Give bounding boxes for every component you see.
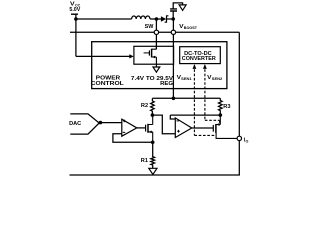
arrow symbol below regulator bbox=[153, 67, 160, 72]
svg-text:R2: R2 bbox=[141, 103, 148, 109]
label POWER CONTROL bbox=[91, 76, 125, 87]
wire feedback R3 node to op-amp U2 negative input bbox=[170, 115, 220, 119]
label VCC bbox=[70, 2, 80, 8]
arrowhead into regulator box bbox=[129, 54, 133, 58]
node junction dot VBOOST sense rail bbox=[172, 97, 176, 101]
op-amp U1 bbox=[122, 119, 137, 136]
wire pin rail horizontal bbox=[70, 31, 239, 33]
node junction dot DAC output bbox=[99, 121, 103, 125]
wire feedback Q1 source to op-amp U1 negative input bbox=[113, 134, 153, 143]
wire VCC vertical bbox=[75, 14, 77, 56]
op-amp U2 input polarity marks bbox=[177, 121, 180, 133]
ground symbol top bbox=[179, 5, 186, 10]
svg-text:DAC: DAC bbox=[69, 121, 81, 127]
svg-text:O: O bbox=[246, 139, 249, 143]
node junction dot SW top bbox=[155, 17, 159, 21]
transistor Q3 regulator pass MOSFET bbox=[144, 46, 157, 67]
wire VBOOST pin drop to sense rail bbox=[172, 19, 174, 98]
arrowhead VSEN1 into converter bbox=[193, 64, 197, 69]
diode D1 schottky bbox=[161, 15, 169, 22]
box regulator MOSFET bbox=[134, 46, 174, 64]
svg-text:SEN2: SEN2 bbox=[212, 77, 222, 81]
wire dashed VSEN2 sense bbox=[205, 69, 220, 124]
svg-text:R1: R1 bbox=[141, 158, 148, 164]
svg-text:R3: R3 bbox=[223, 104, 230, 110]
wire op-amp U1 output to Q1 gate bbox=[137, 127, 146, 129]
wire dashed VSEN1 sense bbox=[194, 69, 215, 135]
inductor L1 bbox=[132, 16, 150, 19]
arrowhead VSEN2 into converter bbox=[203, 64, 207, 69]
label DC-TO-DC CONVERTER bbox=[182, 51, 216, 62]
resistor R2 bbox=[151, 98, 155, 115]
op-amp U2 bbox=[175, 118, 192, 138]
wire capacitor to ground bbox=[173, 3, 182, 9]
wire DAC to op-amp U1 bbox=[100, 122, 121, 124]
svg-text:CONVERTER: CONVERTER bbox=[182, 56, 216, 62]
power rail bar VCC bbox=[71, 13, 78, 15]
wire inductor to SW node bbox=[150, 18, 161, 20]
op-amp U1 input polarity marks bbox=[123, 120, 126, 133]
box POWER CONTROL bbox=[92, 42, 227, 89]
DAC block bbox=[70, 114, 99, 134]
wire SW pin drop to MOSFET drain bbox=[155, 19, 157, 49]
transistor Q2 bbox=[213, 115, 236, 138]
pin circle IO output bbox=[237, 136, 241, 140]
node junction dot VBOOST top bbox=[171, 17, 175, 21]
label VSEN1 bbox=[177, 75, 192, 81]
arrow symbol below R1 bbox=[149, 168, 157, 174]
pin circle VBOOST bbox=[171, 30, 175, 34]
wire VCC to regulator with arrow bbox=[76, 55, 130, 57]
wire IO down and bottom return rail bbox=[70, 141, 240, 175]
capacitor C1 bbox=[170, 9, 177, 11]
svg-text:CONTROL: CONTROL bbox=[91, 81, 125, 87]
wire sense rail R2 to R3 bbox=[152, 97, 220, 99]
svg-text:BOOST: BOOST bbox=[184, 26, 198, 30]
label 7.4V TO 29.5V REG bbox=[131, 76, 174, 87]
wire top rail to inductor bbox=[76, 18, 132, 20]
wire VBOOST up to capacitor bbox=[172, 11, 174, 19]
svg-text:SEN1: SEN1 bbox=[181, 77, 191, 81]
node junction dot Q1 source R1 bbox=[151, 141, 155, 145]
node junction dot VCC/top-rail bbox=[74, 17, 78, 21]
wire op-amp U2 output to Q2 gate bbox=[192, 127, 214, 129]
label IO bbox=[244, 137, 249, 143]
label VBOOST bbox=[179, 24, 198, 30]
wire VBOOST right rail down to IO bbox=[238, 32, 240, 136]
svg-text:5.0V: 5.0V bbox=[69, 7, 80, 13]
svg-text:REG: REG bbox=[160, 81, 173, 87]
box DC-TO-DC CONVERTER bbox=[180, 47, 221, 64]
wire diode to VBOOST node bbox=[167, 18, 174, 20]
svg-text:SW: SW bbox=[145, 24, 154, 30]
wire R2 node to op-amp U2 positive input bbox=[152, 115, 175, 134]
resistor R1 bbox=[151, 142, 155, 168]
node junction dot R3 bottom bbox=[219, 113, 223, 117]
label VSEN2 bbox=[207, 75, 222, 81]
transistor Q1 bbox=[146, 115, 153, 142]
node junction dot R2 bottom bbox=[151, 113, 155, 117]
resistor R3 bbox=[219, 98, 223, 115]
pin circle SW bbox=[154, 30, 158, 34]
